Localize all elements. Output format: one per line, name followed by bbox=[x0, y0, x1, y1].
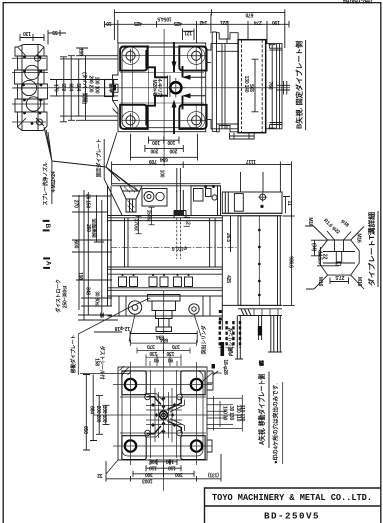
svg-text:11: 11 bbox=[286, 201, 292, 206]
svg-text:221: 221 bbox=[220, 19, 228, 25]
svg-text:18-φ28: 18-φ28 bbox=[222, 359, 228, 375]
svg-text:200: 200 bbox=[150, 147, 158, 153]
svg-text:100 100: 100 100 bbox=[101, 406, 107, 423]
svg-text:300: 300 bbox=[175, 471, 183, 477]
svg-text:B矢視. 固定ダイプレート側: B矢視. 固定ダイプレート側 bbox=[295, 41, 304, 129]
nozzle cylinders bbox=[142, 189, 167, 207]
svg-text:684: 684 bbox=[160, 337, 168, 343]
svg-text:(131): (131) bbox=[208, 472, 219, 478]
right housing bbox=[191, 186, 221, 216]
svg-text:150st: 150st bbox=[146, 210, 152, 222]
svg-text:38: 38 bbox=[98, 312, 104, 318]
370st/150st dim lines bbox=[136, 207, 191, 234]
svg-text:370: 370 bbox=[147, 343, 155, 349]
detail dim ticks bbox=[311, 240, 349, 284]
svg-text:1117: 1117 bbox=[246, 158, 256, 164]
corner bosses bbox=[122, 371, 205, 460]
top-right corner step bbox=[197, 367, 219, 390]
centerlines bbox=[14, 87, 290, 89]
spray view top dim bbox=[20, 30, 66, 45]
side view main block (thick) bbox=[238, 40, 266, 133]
ejector stack bbox=[148, 295, 181, 332]
bolt row dots bbox=[122, 274, 190, 276]
svg-text:684: 684 bbox=[89, 406, 95, 414]
cylinder labels bbox=[129, 314, 201, 341]
svg-text:27.5: 27.5 bbox=[335, 274, 344, 280]
funnel hatch bbox=[124, 187, 139, 212]
svg-text:250~380st: 250~380st bbox=[63, 285, 69, 308]
svg-text:(34): (34) bbox=[311, 243, 317, 252]
svg-text:370st: 370st bbox=[133, 219, 139, 231]
dim 11 bbox=[283, 197, 290, 214]
svg-text:ダイプレートT溝詳細: ダイプレートT溝詳細 bbox=[367, 212, 376, 286]
side view top-right step bbox=[270, 44, 282, 129]
plan outer square bbox=[118, 367, 207, 460]
rear die plate tall rect bbox=[238, 216, 280, 306]
vertical cut arrows bbox=[172, 62, 177, 70]
svg-text:200: 200 bbox=[169, 147, 177, 153]
hole pattern small circles bbox=[145, 394, 183, 436]
base circles bbox=[128, 301, 141, 314]
svg-text:26 150: 26 150 bbox=[85, 194, 91, 209]
lower guide columns bbox=[235, 316, 243, 360]
section cut staircase lines (thick) bbox=[146, 42, 182, 134]
plan centerlines bbox=[93, 337, 240, 491]
svg-text:スプレー洗浄ノズル: スプレー洗浄ノズル bbox=[42, 162, 49, 205]
side view right strip bbox=[266, 44, 282, 129]
svg-text:30 80st: 30 80st bbox=[94, 291, 100, 307]
svg-text:760: 760 bbox=[267, 82, 273, 90]
left edge inlet block bbox=[113, 85, 116, 90]
lower band bbox=[108, 267, 223, 274]
hole pattern grid lines bbox=[113, 362, 212, 465]
svg-text:90: 90 bbox=[154, 357, 160, 363]
dim 936.6 bbox=[283, 216, 295, 305]
title block outline bbox=[205, 488, 381, 523]
T-groove slot bbox=[323, 240, 355, 263]
svg-text:158: 158 bbox=[93, 358, 99, 366]
svg-text:200 200: 200 200 bbox=[95, 406, 101, 423]
dim 670 line bbox=[212, 9, 285, 15]
leader fan lines to spray label bbox=[44, 127, 137, 191]
svg-text:130: 130 bbox=[149, 350, 157, 356]
svg-text:C2: C2 bbox=[335, 260, 341, 266]
svg-text:18: 18 bbox=[258, 360, 264, 366]
svg-text:1054.5: 1054.5 bbox=[157, 15, 172, 21]
ejector hole dots bbox=[151, 397, 176, 434]
svg-text:370: 370 bbox=[172, 343, 180, 349]
side view bottom feet bbox=[230, 133, 255, 139]
svg-text:100: 100 bbox=[159, 170, 165, 178]
svg-text:30 130: 30 130 bbox=[228, 406, 234, 421]
svg-text:274: 274 bbox=[254, 19, 262, 25]
dim 1054.5 line bbox=[114, 9, 211, 40]
svg-text:90: 90 bbox=[168, 357, 174, 363]
plan outer square bbox=[113, 43, 206, 132]
svg-text:100: 100 bbox=[166, 458, 174, 464]
nozzle circle 2 bbox=[21, 80, 36, 95]
section label A-A bbox=[43, 257, 50, 259]
svg-text:198: 198 bbox=[77, 272, 83, 280]
svg-text:100: 100 bbox=[167, 139, 175, 145]
svg-text:130: 130 bbox=[166, 350, 174, 356]
svg-text:270: 270 bbox=[73, 200, 79, 208]
svg-text:425: 425 bbox=[174, 20, 182, 26]
svg-text:850: 850 bbox=[82, 426, 88, 434]
svg-text:TOYO MACHINERY & METAL CO..LTD: TOYO MACHINERY & METAL CO..LTD. bbox=[212, 492, 372, 503]
svg-text:M16: M16 bbox=[317, 277, 323, 287]
chained dim row line bbox=[105, 14, 290, 48]
side view stepped hat bottom bbox=[217, 126, 239, 133]
svg-text:110: 110 bbox=[78, 48, 84, 56]
body left edge bbox=[108, 186, 112, 306]
svg-text:26.5: 26.5 bbox=[225, 233, 231, 242]
svg-text:32: 32 bbox=[97, 472, 103, 478]
corner bosses (thick) bbox=[120, 47, 207, 129]
inner contour bbox=[122, 371, 203, 456]
side view stepped hat top bbox=[217, 33, 239, 44]
side view internal dims bbox=[252, 45, 276, 129]
center ejector rings bbox=[160, 411, 168, 419]
svg-text:A矢視. 移動ダイプレート側: A矢視. 移動ダイプレート側 bbox=[257, 374, 266, 445]
svg-text:BD-250V5: BD-250V5 bbox=[264, 510, 320, 521]
sprue funnel bbox=[120, 186, 142, 212]
side view mid web lines bbox=[217, 39, 239, 129]
bottom bands of rear block bbox=[222, 305, 282, 315]
svg-text:ダイストローク: ダイストローク bbox=[55, 279, 62, 313]
svg-text:12-φ18: 12-φ18 bbox=[115, 325, 131, 331]
svg-text:●印の4ケ所の穴は突出のみです.: ●印の4ケ所の穴は突出のみです. bbox=[272, 383, 280, 464]
svg-text:12: 12 bbox=[185, 219, 191, 225]
center injection ring (thick) bbox=[170, 82, 181, 93]
svg-text:110: 110 bbox=[149, 464, 157, 470]
svg-text:M16: M16 bbox=[356, 277, 362, 287]
base frame bbox=[108, 296, 223, 316]
body top line bbox=[112, 184, 221, 186]
small boss circle bottom bbox=[37, 119, 43, 125]
plan bottom-left chamfer bbox=[113, 100, 119, 114]
corner tie-bar circles (bold double) bbox=[125, 379, 202, 452]
bolt row blocks bbox=[119, 277, 127, 287]
svg-text:B: B bbox=[44, 223, 51, 228]
tie rod bbox=[174, 190, 186, 218]
svg-text:110: 110 bbox=[168, 464, 176, 470]
section label B-B bbox=[43, 220, 50, 222]
svg-text:全面黒染: 全面黒染 bbox=[91, 217, 98, 237]
chamfer leaders bbox=[305, 226, 364, 289]
svg-text:55: 55 bbox=[52, 29, 58, 35]
svg-text:1003: 1003 bbox=[142, 477, 153, 483]
svg-text:670: 670 bbox=[245, 11, 253, 17]
svg-text:190: 190 bbox=[272, 19, 280, 25]
stamp box bbox=[105, 80, 114, 97]
svg-text:425: 425 bbox=[225, 275, 231, 283]
side view left plate bbox=[212, 32, 216, 131]
svg-text:425: 425 bbox=[134, 20, 142, 26]
svg-text:100 30: 100 30 bbox=[222, 406, 228, 421]
svg-text:694: 694 bbox=[160, 156, 168, 162]
svg-text:φ101.6: φ101.6 bbox=[172, 245, 187, 251]
svg-text:移動ダイプレート: 移動ダイプレート bbox=[70, 335, 77, 374]
dim 694 under ejector bbox=[130, 331, 197, 343]
plan inner contour bbox=[122, 47, 202, 128]
corner bolt circles with cross ticks bbox=[122, 47, 205, 129]
svg-text:1992-YB81B4: 1992-YB81B4 bbox=[343, 0, 373, 4]
small boss circle top bbox=[35, 55, 41, 61]
svg-text:121: 121 bbox=[184, 29, 192, 35]
T-groove octagon profile bbox=[319, 240, 359, 275]
svg-text:10: 10 bbox=[106, 20, 112, 26]
sprue pilot lines bbox=[168, 76, 170, 98]
svg-text:突出シリンダ: 突出シリンダ bbox=[201, 325, 208, 354]
svg-text:22: 22 bbox=[322, 254, 328, 260]
nozzle circle 1 bbox=[25, 65, 39, 79]
platen band bbox=[108, 216, 223, 221]
svg-text:A: A bbox=[45, 261, 52, 266]
dim 121 sub line bbox=[183, 29, 195, 41]
rear housing bbox=[222, 192, 282, 213]
svg-text:348: 348 bbox=[85, 287, 91, 295]
right edge center ticks bbox=[277, 81, 290, 95]
svg-text:4-キリ穴: 4-キリ穴 bbox=[156, 79, 163, 98]
svg-text:M20×45: M20×45 bbox=[151, 79, 157, 96]
centerline through mold space bbox=[111, 246, 237, 248]
spray unit inner steps bbox=[18, 45, 45, 131]
svg-text:142: 142 bbox=[199, 19, 207, 25]
svg-text:100: 100 bbox=[152, 139, 160, 145]
section cut arrows bbox=[182, 75, 191, 80]
svg-text:固定ダイプレート: 固定ダイプレート bbox=[96, 139, 103, 178]
svg-text:600: 600 bbox=[73, 240, 79, 248]
bottom-right corner step bbox=[207, 440, 212, 452]
cross ticks on unit bbox=[12, 58, 48, 122]
svg-text:M16: M16 bbox=[356, 233, 362, 243]
plan top-right step to side view bbox=[206, 44, 217, 129]
svg-text:936.6: 936.6 bbox=[288, 256, 294, 268]
spray unit stud dots bbox=[22, 56, 42, 125]
svg-text:M16: M16 bbox=[307, 217, 313, 227]
pinwheel arms bbox=[147, 397, 182, 434]
svg-text:300: 300 bbox=[145, 471, 153, 477]
vent circle bbox=[260, 194, 266, 200]
svg-text:565: 565 bbox=[248, 84, 254, 92]
mold space columns bbox=[125, 218, 216, 267]
left guide lines of rear plate bbox=[222, 216, 230, 330]
svg-text:110 130: 110 130 bbox=[239, 405, 245, 422]
svg-text:130: 130 bbox=[23, 30, 31, 36]
svg-text:200 200: 200 200 bbox=[87, 76, 93, 93]
spray unit outer profile bbox=[15, 45, 48, 131]
nozzle circle 3 bbox=[26, 97, 40, 111]
svg-text:100: 100 bbox=[149, 458, 157, 464]
chamfer slashes bbox=[18, 47, 45, 127]
svg-text:(タイバー間隔): (タイバー間隔) bbox=[81, 72, 88, 104]
svg-text:250: 250 bbox=[85, 224, 91, 232]
svg-text:709: 709 bbox=[149, 158, 157, 164]
